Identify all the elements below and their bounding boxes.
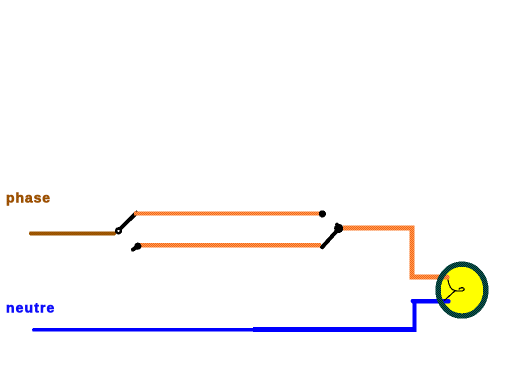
wire neutre (blue) to lamp xyxy=(413,299,448,304)
wire navette bottom (orange) xyxy=(137,243,321,247)
switch S1 pivot xyxy=(115,227,122,234)
switch S2 lever xyxy=(322,229,338,247)
node contact S1 bottom xyxy=(134,243,141,250)
svg-text:neutre: neutre xyxy=(6,300,55,316)
wire neutre (blue) left segment xyxy=(34,328,255,332)
wire neutre (blue) vertical xyxy=(413,299,417,332)
wire navette top (orange) xyxy=(134,211,320,215)
switch S1 lever xyxy=(119,213,137,231)
node contact S2 top xyxy=(319,210,326,217)
lamp bulb fill xyxy=(437,263,488,318)
switch S2 pivot xyxy=(334,224,343,233)
wire phase (brown) xyxy=(31,231,114,235)
wire to lamp (orange) xyxy=(343,228,446,277)
wire neutre (blue) right segment xyxy=(253,327,415,332)
lamp filament xyxy=(445,280,465,300)
lamp outline xyxy=(438,264,486,316)
svg-text:phase: phase xyxy=(6,190,51,206)
